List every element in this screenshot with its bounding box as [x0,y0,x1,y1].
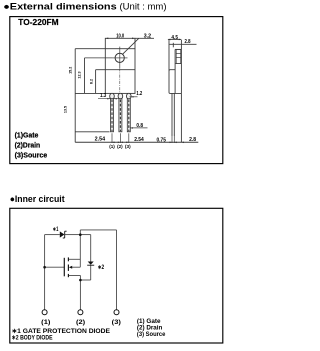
svg-text:2.8: 2.8 [189,137,196,143]
gate bar [63,258,65,277]
side 0.75 arrowheads [170,142,173,144]
svg-text:0.8: 0.8 [136,123,143,129]
side 4.5 left extension [168,40,170,71]
side 2.8 top dim line [170,43,197,45]
svg-text:(2)Drain: (2)Drain [15,142,40,149]
leader to hole [123,38,139,54]
svg-text:(3)Source: (3)Source [15,152,48,159]
side inner tab line [176,53,181,55]
left dim line 2 [84,58,86,94]
channel dash middle [67,265,69,271]
side lead ticks [171,135,173,143]
side inner tab rect [176,49,181,63]
svg-text:12.3: 12.3 [77,71,81,78]
dim 0.8 lead width [130,123,147,129]
wire: FET drain dash to corner [68,275,80,277]
wire: node B to drain terminal [79,280,81,310]
svg-text:(1): (1) [41,319,50,326]
svg-text:∗1: ∗1 [53,227,59,233]
transistor Q1 N-channel MOSFET [64,257,68,277]
wire: body diode top vertical [90,235,92,262]
wire: FET source dash to vertical [68,258,80,260]
svg-text:10.0: 10.0 [116,34,124,40]
svg-text:(1): (1) [109,144,115,150]
node B junction dot [79,279,82,282]
centerline through middle lead [119,68,121,131]
svg-text:∗2: ∗2 [98,265,105,271]
left dim line 3 [95,70,97,94]
svg-text:13.5: 13.5 [64,106,68,113]
wire: node A to body diode branch [80,234,90,236]
frame box: external dimensions [10,17,223,164]
svg-text:8.2: 8.2 [89,79,93,84]
svg-text:∗2 BODY DIODE: ∗2 BODY DIODE [12,335,54,342]
dim 10.0 extension lines [104,38,106,49]
svg-text:0.75: 0.75 [157,137,166,143]
wire: drain corner to node B [79,275,81,280]
side lead left [171,93,173,135]
wire: gate terminal vertical [44,235,46,310]
wire: top rail [80,229,116,231]
frame box: inner circuit [10,208,223,343]
svg-text:15.2: 15.2 [68,67,72,74]
side tab line across [175,63,181,65]
svg-text:(Unit : mm): (Unit : mm) [120,1,167,11]
svg-text:(1)Gate: (1)Gate [15,133,39,140]
side front face [180,40,182,93]
svg-text:TO-220FM: TO-220FM [18,17,58,27]
dim1 top extension [75,48,105,50]
wire: body diode bottom to node B [80,279,90,281]
side tab cap [175,48,181,50]
wire: gate horizontal [45,266,65,268]
front view step line [105,69,135,71]
lead tip extension line [75,131,109,133]
gate junction dot [43,266,46,269]
wire: FET body dash to vertical [72,266,81,268]
dim3 extension at step [96,69,106,71]
channel dash bottom [67,274,69,277]
body arrow of MOSFET [69,266,72,269]
side 2.8 tick [172,43,174,48]
hole crosshair horizontal [113,57,128,59]
svg-text:2.54: 2.54 [95,137,106,143]
svg-text:2.8: 2.8 [185,39,191,45]
side 4.5 arrowheads [168,39,171,41]
side inner tab line 2 [176,57,181,59]
dim2 extension at hole centerline [85,57,113,59]
wire: body diode bottom vertical [90,265,92,280]
svg-text:(3) Source: (3) Source [137,331,166,338]
lead 1 [110,93,115,131]
svg-text:1.2: 1.2 [136,91,142,97]
dim 10.0 dimension line + 3.2 shelf [105,37,154,39]
channel dash top [67,257,69,261]
wire: node A up [79,230,81,235]
mounting hole [115,53,124,62]
bottom baseline [75,141,198,143]
svg-text:(3): (3) [125,144,131,150]
svg-text:●Inner circuit: ●Inner circuit [10,194,65,204]
side tab back [174,49,176,93]
dim 1.3 lead root [98,93,120,99]
diode D1 gate protection zener [60,231,67,238]
svg-text:(2): (2) [117,144,123,150]
2.54 arrowheads [112,142,115,144]
terminal circle 1 [42,310,47,315]
svg-text:1.3: 1.3 [100,93,106,99]
svg-text:(3): (3) [112,319,121,326]
wire: gate to zener [45,234,60,236]
svg-text:(2): (2) [76,319,85,326]
svg-text:●External dimensions: ●External dimensions [3,1,116,11]
terminal circle 3 [114,310,119,315]
node A junction dot [79,233,82,236]
side front face extension down [180,93,182,142]
dim 1.2 lead root right [130,91,143,98]
diode D2 body diode [87,262,94,266]
side body outline rounded [169,70,181,94]
lead 2 [118,93,123,131]
lead centerline ticks [111,133,113,143]
front view body outline [105,49,135,94]
lead 3 [127,93,132,131]
wire: zener to node A [65,234,81,236]
hole crosshair vertical [119,47,121,69]
wire: source terminal vertical [116,230,118,310]
body bottom extension left [75,92,105,94]
wire: node A down to FET source/body [79,235,81,268]
svg-text:4.5: 4.5 [171,35,178,41]
side lead right [173,93,175,135]
dim 10.0 arrowheads [105,38,108,40]
side 4.5 dim line [168,38,182,40]
svg-text:3.2: 3.2 [144,34,151,40]
left dim line 1 [74,49,76,143]
svg-text:2.54: 2.54 [134,137,144,143]
side 2.8 bottom arrowhead [181,142,184,144]
terminal circle 2 [78,310,83,315]
